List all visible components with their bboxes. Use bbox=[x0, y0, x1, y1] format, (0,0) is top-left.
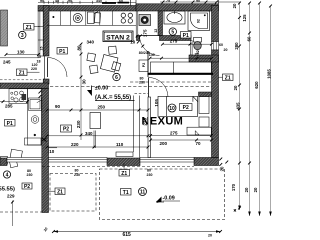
heavy beam segments above wall bbox=[102, 2, 116, 4]
svg-text:225: 225 bbox=[142, 118, 147, 126]
label Z1 right wall bbox=[219, 74, 234, 81]
svg-text:280: 280 bbox=[234, 42, 239, 50]
living dim line 220+110 bbox=[47, 146, 148, 148]
wall: left stub below entry door bbox=[43, 79, 49, 84]
label Z1 neighbour terrace bbox=[49, 188, 66, 195]
kitchen sink bbox=[88, 12, 101, 24]
window in right wall (bathroom) bbox=[212, 42, 219, 51]
bathroom shower bbox=[188, 11, 210, 31]
wall: bathroom bottom wall left stub bbox=[137, 36, 140, 41]
svg-text:220: 220 bbox=[31, 67, 37, 71]
svg-text:Z1: Z1 bbox=[19, 70, 25, 76]
bathroom washbasin bbox=[164, 11, 185, 24]
svg-text:Z1: Z1 bbox=[57, 189, 63, 195]
svg-text:435: 435 bbox=[236, 102, 241, 110]
wall: bottom wall hatch mid segment bbox=[107, 158, 140, 166]
svg-text:80/230: 80/230 bbox=[139, 51, 150, 55]
bedroom wall pier top right bbox=[199, 92, 212, 97]
neighbour kitchen bbox=[9, 89, 42, 145]
terrace dashed rect A (neighbour) bbox=[50, 174, 96, 212]
svg-text:60: 60 bbox=[119, 0, 123, 3]
wall edge line above right corner bbox=[217, 0, 219, 4]
svg-text:285: 285 bbox=[5, 104, 13, 109]
label Z1 left mid bbox=[17, 69, 40, 76]
sliding panel symbol above bottom wall bbox=[116, 152, 133, 157]
svg-text:±0.00: ±0.00 bbox=[95, 85, 108, 91]
svg-text:18: 18 bbox=[37, 60, 41, 64]
svg-text:615: 615 bbox=[123, 232, 132, 238]
svg-text:230: 230 bbox=[27, 173, 33, 177]
label T1 terrace bbox=[121, 189, 132, 196]
window neighbour bottom bbox=[7, 158, 42, 163]
wall: corridor partition line bbox=[147, 51, 149, 77]
svg-text:55.55): 55.55) bbox=[0, 187, 15, 193]
svg-text:20: 20 bbox=[220, 166, 225, 171]
svg-text:229: 229 bbox=[7, 194, 15, 199]
svg-text:230: 230 bbox=[74, 173, 80, 177]
svg-text:220: 220 bbox=[71, 142, 79, 147]
svg-text:125: 125 bbox=[242, 14, 247, 22]
svg-text:90: 90 bbox=[40, 0, 44, 3]
top dimension line bbox=[38, 1, 240, 3]
svg-text:200: 200 bbox=[160, 141, 168, 146]
svg-text:275: 275 bbox=[170, 131, 178, 136]
svg-text:92: 92 bbox=[196, 19, 200, 23]
bedroom dim line 275 bbox=[151, 135, 212, 137]
neighbour dark kettle bbox=[22, 94, 27, 100]
svg-text:STAN 2: STAN 2 bbox=[106, 34, 130, 41]
label P2 bedroom bbox=[180, 104, 193, 112]
bathroom door arc bbox=[140, 36, 160, 56]
svg-text:340: 340 bbox=[85, 131, 93, 136]
svg-text:110: 110 bbox=[116, 142, 124, 147]
toilet bbox=[194, 38, 202, 50]
svg-text:Z1: Z1 bbox=[121, 171, 127, 177]
circled 11 terrace bbox=[139, 188, 147, 196]
label P1 living bbox=[57, 48, 68, 55]
svg-text:T1: T1 bbox=[123, 190, 129, 196]
svg-text:P1: P1 bbox=[59, 49, 65, 55]
svg-text:60: 60 bbox=[219, 43, 223, 47]
wall: right exterior upper bbox=[212, 6, 219, 42]
bedroom nightstand lower bbox=[199, 117, 209, 127]
cut top numbers bbox=[40, 0, 200, 3]
svg-text:170: 170 bbox=[231, 183, 236, 191]
wall: partition living/bedroom bbox=[148, 97, 151, 158]
svg-text:340: 340 bbox=[96, 0, 102, 3]
window in bottom wall - living room bbox=[49, 158, 108, 163]
bottom 615 dim line bbox=[54, 231, 221, 233]
box with rotated label near corridor bbox=[139, 60, 148, 72]
kitchen counter dot bbox=[52, 16, 54, 18]
left dim 245 line bbox=[0, 57, 40, 59]
washing machine bbox=[139, 15, 151, 26]
living vert dim line bbox=[80, 44, 82, 140]
bedroom nightstand upper bbox=[199, 97, 209, 114]
svg-text:275: 275 bbox=[170, 39, 178, 44]
neighbour dim 285 line bbox=[0, 101, 28, 103]
svg-text:1085: 1085 bbox=[267, 69, 272, 79]
wall: bathroom bottom wall right of door bbox=[160, 36, 192, 41]
svg-text:6: 6 bbox=[115, 75, 118, 81]
living dim riser bbox=[93, 131, 95, 149]
svg-text:11: 11 bbox=[140, 190, 146, 196]
svg-text:45: 45 bbox=[55, 0, 59, 3]
svg-text:80: 80 bbox=[77, 45, 82, 51]
circled 5 bathroom bbox=[169, 28, 176, 36]
window Z1 channel in left wall bbox=[38, 11, 43, 56]
bedroom dim line 200+70 bbox=[151, 139, 212, 141]
label Z1 bottom window bbox=[119, 163, 130, 177]
kitchen counter bbox=[47, 11, 136, 25]
svg-text:20: 20 bbox=[232, 3, 237, 8]
neighbour sideboard bbox=[25, 138, 42, 145]
label P2 neighbour terrace bbox=[22, 183, 32, 190]
terrace dashed rect B (stan 2) bbox=[100, 169, 225, 220]
svg-text:20: 20 bbox=[233, 85, 238, 90]
level marker living bbox=[87, 85, 148, 101]
svg-text:175: 175 bbox=[142, 29, 147, 37]
svg-text:3: 3 bbox=[21, 33, 24, 39]
label P2 living bbox=[61, 125, 72, 133]
svg-text:90: 90 bbox=[55, 104, 61, 109]
kitchen hob spiral bbox=[73, 13, 82, 22]
svg-text:Z1: Z1 bbox=[225, 75, 231, 81]
dashed ceiling line bedroom bbox=[130, 81, 212, 83]
label P1 neighbour bbox=[5, 120, 16, 127]
svg-text:10: 10 bbox=[169, 106, 175, 112]
svg-text:20: 20 bbox=[244, 187, 249, 192]
right vertical dimension lines bbox=[240, 3, 271, 216]
interior dimension lines bbox=[0, 44, 221, 232]
svg-text:70: 70 bbox=[196, 141, 202, 146]
svg-text:60: 60 bbox=[247, 36, 252, 41]
ticks on right dim lines bbox=[238, 2, 272, 210]
svg-text:20: 20 bbox=[224, 48, 228, 52]
wall: wc nook bottom wall bbox=[189, 55, 219, 62]
wall: party wall horizontal band bbox=[0, 83, 49, 89]
corridor dim line bbox=[150, 57, 212, 59]
svg-text:10: 10 bbox=[49, 149, 55, 154]
top tick arrows right part bbox=[162, 1, 218, 4]
bottom arrows of right dim lines bbox=[234, 206, 272, 217]
wall: neighbour facade grey wall bbox=[1, 10, 8, 46]
wall: bottom wall right corner bbox=[194, 158, 219, 166]
svg-text:52: 52 bbox=[196, 50, 200, 54]
label STAN 2 bbox=[103, 31, 133, 42]
svg-text:15: 15 bbox=[40, 47, 44, 51]
label P1 bathroom bbox=[181, 32, 192, 39]
beam thick line over wardrobe bbox=[148, 73, 214, 75]
wall: wc nook left thin wall bbox=[191, 41, 193, 56]
bedroom low cabinet bottom bbox=[187, 127, 211, 135]
svg-text:20: 20 bbox=[208, 234, 212, 238]
circled 3 bbox=[19, 31, 26, 39]
wall: left exterior wall core bbox=[43, 6, 49, 57]
svg-text:P1: P1 bbox=[7, 121, 13, 127]
left dim 130 line bbox=[6, 54, 39, 56]
wall: neighbour bottom wall stub bbox=[0, 158, 7, 166]
corner door symbol bbox=[195, 131, 199, 135]
bed bbox=[158, 96, 198, 116]
bathroom dim line bbox=[163, 43, 212, 45]
wall: top exterior wall east part bbox=[136, 4, 219, 11]
dashed line under bottom wall bbox=[42, 166, 194, 168]
svg-text:Z1: Z1 bbox=[26, 25, 32, 31]
svg-text:230: 230 bbox=[147, 173, 153, 177]
svg-text:4: 4 bbox=[6, 172, 9, 178]
misc dim ticks bbox=[39, 35, 229, 166]
svg-text:620: 620 bbox=[254, 81, 259, 89]
wardrobe corridor bbox=[151, 62, 212, 74]
kitchen stove 4 burners bbox=[121, 13, 132, 23]
dining table bbox=[87, 46, 121, 73]
svg-text:P2: P2 bbox=[183, 105, 189, 111]
window in bottom wall - bedroom bbox=[140, 158, 194, 163]
wall: party wall vertical band bbox=[42, 89, 49, 213]
svg-text:245: 245 bbox=[3, 60, 11, 65]
svg-text:P1: P1 bbox=[183, 33, 189, 39]
svg-text:230: 230 bbox=[139, 81, 145, 85]
shaft lines right of living room bbox=[134, 96, 140, 158]
dim ticks interior bbox=[2, 43, 222, 233]
wall: right exterior lower bbox=[212, 50, 219, 158]
dashed ceiling line living bbox=[50, 86, 212, 88]
neighbour dining table bbox=[1, 149, 23, 167]
svg-text:75: 75 bbox=[166, 0, 170, 3]
svg-text:30: 30 bbox=[81, 79, 86, 85]
svg-text:130: 130 bbox=[17, 49, 25, 54]
svg-text:P2: P2 bbox=[63, 127, 69, 133]
level marker terrace bbox=[156, 196, 180, 202]
living horiz dim line bbox=[47, 109, 148, 111]
wall: bathroom left wall bbox=[158, 11, 163, 36]
svg-text:340: 340 bbox=[87, 39, 95, 44]
label Z1 top left bbox=[24, 24, 40, 31]
wall: top exterior wall west part bbox=[38, 6, 136, 12]
615 end arrows bbox=[54, 201, 221, 233]
svg-text:90: 90 bbox=[68, 0, 72, 3]
neighbour vertical dim line bbox=[12, 201, 14, 227]
svg-text:230: 230 bbox=[76, 120, 81, 128]
circled 10 bedroom bbox=[168, 104, 176, 112]
living sideboard bbox=[90, 113, 101, 129]
neighbour circled 4 bbox=[3, 171, 10, 179]
wall: kitchen niche partition bbox=[136, 11, 138, 36]
circled 6 bbox=[113, 73, 120, 81]
bedroom door arc bbox=[149, 78, 169, 98]
entry door arc bbox=[45, 56, 68, 79]
dashed line neighbour bottom bbox=[0, 211, 45, 213]
wall stubs above top wall bbox=[131, 0, 137, 6]
svg-text:P2: P2 bbox=[142, 63, 146, 67]
svg-text:105: 105 bbox=[154, 99, 159, 107]
svg-text:20: 20 bbox=[253, 187, 258, 192]
svg-text:90: 90 bbox=[196, 0, 200, 3]
svg-text:12: 12 bbox=[154, 29, 158, 33]
living dim line 340 bbox=[47, 135, 148, 137]
svg-text:10: 10 bbox=[130, 40, 136, 45]
svg-text:5: 5 bbox=[171, 30, 174, 36]
right column rotated dim texts bbox=[220, 3, 272, 192]
svg-text:P2: P2 bbox=[24, 184, 30, 190]
svg-text:250: 250 bbox=[98, 104, 106, 109]
